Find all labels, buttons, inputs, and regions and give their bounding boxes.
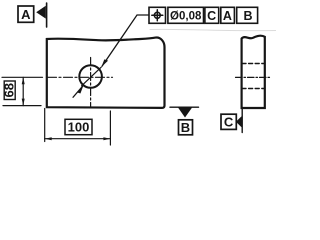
100 dim: left extension bbox=[44, 109, 46, 142]
datum B extension line bbox=[170, 106, 199, 108]
svg-text:B: B bbox=[243, 9, 252, 23]
leader arrowhead upper bbox=[101, 59, 108, 67]
100 box bbox=[65, 119, 92, 134]
side view outline bbox=[242, 36, 265, 108]
FCF box2 tolerance cell bbox=[168, 7, 204, 23]
68 arrows bbox=[22, 77, 25, 84]
datum C box bbox=[221, 114, 236, 129]
FCF box4 A cell bbox=[221, 7, 235, 23]
datum C extension line bbox=[241, 108, 243, 133]
FCF box1 position symbol cell bbox=[149, 7, 166, 23]
side view center line bbox=[236, 76, 271, 78]
100 dim: right extension bbox=[109, 111, 111, 145]
svg-text:68: 68 bbox=[2, 83, 17, 97]
hole circle bbox=[79, 65, 102, 88]
leader from FCF to hole bbox=[102, 15, 149, 66]
datum C triangle bbox=[236, 115, 243, 128]
68 dim: bottom extension line bbox=[3, 105, 41, 107]
horizontal center line (also 68 top extension) bbox=[2, 76, 43, 78]
vertical center line bbox=[90, 58, 92, 108]
side view hidden line top bbox=[242, 63, 265, 65]
datum B box bbox=[179, 120, 193, 135]
lower arrowhead bbox=[77, 86, 84, 94]
FCF box3 C cell bbox=[205, 7, 219, 23]
68 box bbox=[4, 81, 15, 100]
datum A triangle bbox=[36, 6, 46, 19]
svg-text:B: B bbox=[181, 120, 190, 135]
datum B triangle bbox=[178, 107, 193, 117]
datum A box bbox=[18, 6, 34, 22]
svg-text:A: A bbox=[21, 7, 31, 22]
svg-text:C: C bbox=[207, 9, 216, 23]
side view hidden line bottom bbox=[242, 88, 265, 90]
100 arrows bbox=[45, 137, 52, 140]
part outline front view bbox=[47, 38, 165, 108]
68 dim line bbox=[22, 77, 24, 105]
svg-text:100: 100 bbox=[68, 120, 90, 135]
position symbol bbox=[154, 12, 160, 18]
faint scan streak artifact bbox=[150, 29, 276, 30]
100 dim line bbox=[45, 138, 111, 140]
lower-left leader segment bbox=[73, 86, 83, 97]
svg-text:C: C bbox=[224, 114, 234, 129]
svg-text:Ø0,08: Ø0,08 bbox=[170, 11, 202, 23]
datum A extension line bbox=[46, 3, 48, 27]
FCF box5 B cell bbox=[237, 7, 258, 23]
svg-text:A: A bbox=[223, 9, 232, 23]
diagonal through hole bbox=[82, 67, 102, 86]
